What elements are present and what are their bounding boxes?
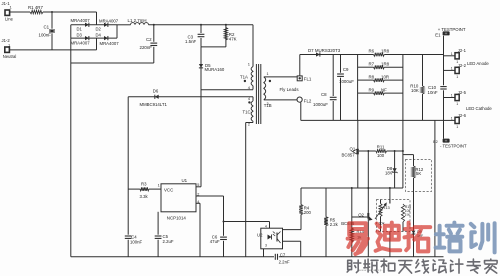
svg-text:1R8: 1R8 bbox=[381, 61, 390, 66]
svg-text:5K: 5K bbox=[416, 171, 421, 176]
svg-text:1: 1 bbox=[456, 125, 458, 129]
svg-text:1: 1 bbox=[456, 75, 458, 79]
svg-text:C5: C5 bbox=[163, 234, 169, 239]
svg-text:BC857: BC857 bbox=[342, 153, 356, 158]
svg-text:1: 1 bbox=[267, 72, 269, 76]
svg-text:10nF: 10nF bbox=[428, 90, 438, 95]
svg-text:18V: 18V bbox=[385, 170, 393, 175]
svg-text:E1: E1 bbox=[435, 32, 441, 37]
svg-text:100: 100 bbox=[377, 153, 385, 158]
svg-text:2.2k: 2.2k bbox=[330, 222, 339, 227]
svg-text:MRA4007: MRA4007 bbox=[71, 18, 91, 23]
svg-text:C1: C1 bbox=[44, 25, 50, 30]
svg-text:U1: U1 bbox=[182, 178, 188, 183]
svg-text:T1C: T1C bbox=[243, 110, 251, 115]
svg-text:1000uF: 1000uF bbox=[339, 79, 354, 84]
svg-text:R3: R3 bbox=[141, 182, 147, 187]
svg-text:1000uF: 1000uF bbox=[313, 102, 328, 107]
svg-text:R1 4R7: R1 4R7 bbox=[28, 5, 43, 10]
svg-text:3: 3 bbox=[265, 243, 267, 247]
svg-text:C2: C2 bbox=[146, 37, 152, 42]
svg-text:4: 4 bbox=[248, 97, 250, 101]
svg-text:J2-1: J2-1 bbox=[458, 48, 467, 53]
svg-text:47uF: 47uF bbox=[210, 239, 220, 244]
svg-text:47K: 47K bbox=[229, 36, 237, 41]
svg-text:FL2: FL2 bbox=[304, 98, 312, 103]
svg-text:MMBC914LT1: MMBC914LT1 bbox=[140, 102, 168, 107]
svg-text:3: 3 bbox=[267, 102, 269, 106]
svg-text:4: 4 bbox=[265, 225, 267, 229]
svg-text:J2-5: J2-5 bbox=[458, 90, 467, 95]
svg-text:U2: U2 bbox=[257, 233, 263, 238]
svg-text:D6: D6 bbox=[153, 89, 159, 94]
svg-text:100nF: 100nF bbox=[130, 239, 143, 244]
svg-text:R7: R7 bbox=[369, 61, 375, 66]
svg-text:MRA4007: MRA4007 bbox=[100, 41, 120, 46]
svg-text:NCP1014: NCP1014 bbox=[167, 215, 187, 220]
svg-text:E2: E2 bbox=[433, 140, 438, 144]
svg-text:3.3k: 3.3k bbox=[140, 194, 149, 199]
svg-text:VCC: VCC bbox=[164, 187, 173, 192]
svg-text:J2-2: J2-2 bbox=[458, 63, 467, 68]
svg-text:1.5nF: 1.5nF bbox=[185, 39, 197, 44]
svg-text:MRA4007: MRA4007 bbox=[99, 18, 119, 23]
svg-text:1: 1 bbox=[456, 102, 458, 106]
svg-text:NF: NF bbox=[381, 87, 387, 92]
svg-text:LED Anode: LED Anode bbox=[467, 61, 489, 66]
svg-text:D7 MURS320T3: D7 MURS320T3 bbox=[308, 48, 341, 53]
svg-text:LED Cathode: LED Cathode bbox=[466, 106, 492, 111]
svg-text:1: 1 bbox=[158, 184, 160, 188]
svg-text:Neutral: Neutral bbox=[3, 54, 17, 59]
svg-text:D1: D1 bbox=[77, 27, 83, 32]
svg-text:R11: R11 bbox=[377, 144, 385, 149]
svg-text:1R8: 1R8 bbox=[381, 49, 390, 54]
svg-text:200: 200 bbox=[304, 210, 312, 215]
svg-text:D4: D4 bbox=[96, 33, 102, 38]
svg-text:1: 1 bbox=[451, 94, 453, 98]
svg-text:1: 1 bbox=[451, 66, 453, 70]
svg-text:C7: C7 bbox=[280, 252, 286, 257]
svg-text:C9: C9 bbox=[343, 67, 349, 72]
svg-text:Line: Line bbox=[5, 16, 14, 21]
svg-text:D3: D3 bbox=[77, 33, 83, 38]
svg-text:- TESTPOINT: - TESTPOINT bbox=[440, 144, 467, 149]
svg-text:1: 1 bbox=[451, 52, 453, 56]
svg-text:FL1: FL1 bbox=[304, 76, 312, 81]
svg-text:2.2nF: 2.2nF bbox=[279, 259, 290, 264]
svg-text:Q1: Q1 bbox=[350, 146, 356, 151]
svg-text:MRA4007: MRA4007 bbox=[71, 41, 91, 46]
svg-text:D2: D2 bbox=[96, 27, 102, 32]
svg-text:MURA160: MURA160 bbox=[205, 67, 225, 72]
svg-text:R13: R13 bbox=[382, 205, 390, 210]
svg-text:L1 2.7mH: L1 2.7mH bbox=[128, 18, 147, 23]
svg-text:100nF: 100nF bbox=[39, 33, 52, 38]
svg-text:+ TESTPOINT: + TESTPOINT bbox=[438, 27, 466, 32]
svg-text:1%: 1% bbox=[405, 213, 410, 217]
svg-text:220nF: 220nF bbox=[140, 45, 153, 50]
svg-text:2.2uF: 2.2uF bbox=[163, 239, 174, 244]
svg-text:R8: R8 bbox=[369, 74, 375, 79]
svg-text:T1A: T1A bbox=[240, 74, 248, 79]
svg-text:R9: R9 bbox=[369, 87, 375, 92]
svg-text:2: 2 bbox=[248, 123, 250, 127]
svg-text:· w w w · e d a t o p ·: · w w w · e d a t o p · bbox=[357, 268, 383, 272]
svg-text:1: 1 bbox=[451, 116, 453, 120]
svg-text:10K: 10K bbox=[411, 88, 419, 93]
svg-text:J2-6: J2-6 bbox=[458, 113, 467, 118]
svg-text:R6: R6 bbox=[369, 49, 375, 54]
svg-text:C8: C8 bbox=[321, 92, 327, 97]
svg-text:10R: 10R bbox=[381, 74, 389, 79]
svg-text:Fly Leads: Fly Leads bbox=[280, 87, 300, 92]
